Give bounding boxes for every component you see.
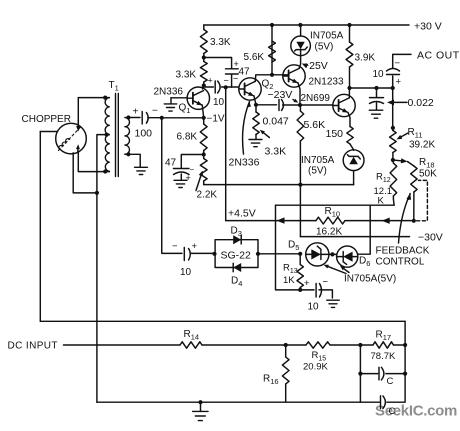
svg-text:−: −	[224, 76, 229, 86]
label +30 V	[414, 21, 442, 33]
wire chopper bottom	[78, 152, 109, 171]
label (5V) mid	[308, 166, 327, 177]
node 5.6Kb bottom	[298, 183, 302, 187]
label -30V	[418, 232, 443, 244]
wire R15	[286, 344, 361, 346]
node R13 bottom	[298, 288, 302, 292]
capacitor 0.022	[370, 98, 384, 110]
label - cap10c	[323, 277, 329, 288]
wire bus to R11	[392, 88, 394, 128]
svg-text:39.2K: 39.2K	[409, 140, 435, 151]
diode D4	[233, 263, 241, 272]
node D5-D6	[330, 252, 334, 256]
svg-text:+: +	[186, 173, 191, 183]
ground C47a	[174, 180, 187, 187]
wire cap100 out	[148, 117, 162, 119]
label 3.3K upper	[210, 37, 231, 48]
resistor R18 50K	[411, 166, 417, 192]
wire chopper left	[40, 131, 57, 133]
label - cap10a	[224, 76, 229, 86]
node SG22 left	[212, 252, 216, 256]
label IN705A top	[310, 31, 344, 42]
wire 2N1233 collector	[299, 56, 300, 69]
svg-text:+4.5V: +4.5V	[228, 208, 256, 220]
transistor 2N1233	[283, 65, 305, 87]
resistor R13 1K	[297, 254, 303, 290]
wire Q2 base net vertical	[225, 87, 227, 220]
wire secondary bottom to ground	[125, 154, 140, 167]
wire Q2 emitter to 0.047	[254, 96, 277, 105]
wire Q1 emitter	[202, 105, 203, 117]
node R11 bottom	[391, 158, 395, 162]
arrow R11 pointer	[397, 133, 409, 140]
wire -30V rail	[300, 236, 409, 238]
label 50K	[419, 169, 437, 180]
label 1K	[283, 275, 295, 286]
svg-text:C: C	[389, 406, 396, 417]
label R16	[263, 374, 279, 387]
label CHOPPER	[22, 114, 71, 125]
label 12.1	[374, 186, 393, 197]
label CONTROL	[376, 257, 425, 268]
svg-text:SeekIC.com: SeekIC.com	[375, 403, 457, 420]
wire -1V node	[162, 117, 204, 119]
resistor 6.8K	[200, 118, 207, 155]
label Q2	[262, 79, 274, 92]
label +4.5V	[228, 208, 256, 220]
transformer T1 primary upper	[105, 98, 109, 135]
svg-text:10: 10	[373, 69, 385, 80]
transistor Q1	[187, 87, 209, 109]
node Q2 emitter	[254, 103, 258, 107]
label 100	[135, 128, 153, 140]
svg-text:CHOPPER: CHOPPER	[22, 114, 71, 125]
svg-text:+: +	[396, 77, 402, 88]
resistor R15 20.9K	[306, 342, 330, 348]
svg-text:−: −	[395, 58, 401, 69]
svg-text:47: 47	[239, 67, 251, 78]
arrow pointer to D5	[324, 265, 347, 274]
node Q1 collector	[202, 83, 206, 87]
wire C2 loop	[360, 374, 405, 403]
arrow 3.3K pointer	[260, 130, 270, 138]
wire chopper coil out	[73, 153, 97, 193]
wire 5.6Ka	[271, 25, 273, 75]
node 0.022 tap	[374, 86, 378, 90]
svg-text:−23V: −23V	[268, 89, 293, 101]
wire 0.022 stem	[376, 88, 378, 97]
svg-text:IN705A: IN705A	[310, 31, 344, 42]
node cap100 to -1V	[160, 116, 164, 120]
label -23V	[268, 89, 293, 101]
svg-text:100: 100	[135, 128, 153, 140]
wire cap100b feed	[162, 118, 182, 254]
transformer T1 secondary	[125, 118, 130, 155]
node R14 R15 junction	[284, 343, 288, 347]
label K	[378, 196, 385, 207]
svg-text:+: +	[192, 241, 198, 252]
wire SG22 to D5	[258, 253, 300, 255]
wire SG22 loop	[215, 240, 258, 268]
node R11 top	[391, 126, 395, 130]
svg-text:2.2K: 2.2K	[197, 190, 218, 201]
resistor 150	[347, 127, 353, 145]
wire chopper left drop	[39, 132, 41, 322]
label 78.7K	[371, 351, 396, 362]
resistor R12 12.1K	[390, 160, 397, 199]
label (5V) top	[315, 42, 334, 53]
node emitter junction	[298, 103, 302, 107]
svg-text:−: −	[190, 165, 195, 174]
svg-text:5.6K: 5.6K	[244, 52, 265, 63]
node 3.9K bottom	[347, 86, 351, 90]
label + cap10c	[304, 278, 310, 289]
svg-text:3.3K: 3.3K	[265, 146, 287, 158]
wire bottom rail	[97, 401, 361, 403]
chopper V1	[56, 123, 87, 154]
label 5.6K second	[304, 119, 326, 131]
svg-text:−30V: −30V	[418, 232, 443, 244]
label - C47b	[233, 74, 238, 84]
label 2N699	[301, 93, 331, 104]
label 3.3K lower	[176, 70, 197, 81]
resistor 3.9K	[346, 25, 353, 88]
svg-text:C: C	[387, 376, 394, 387]
svg-text:16.2K: 16.2K	[316, 227, 342, 238]
wire Q1 collector to Q2 base	[204, 86, 239, 88]
label 16.2K	[316, 227, 342, 238]
resistor 2.2K	[200, 155, 207, 185]
capacitor 100	[142, 112, 148, 125]
wire dashed R18 wiper link	[417, 180, 428, 220]
wire junction cross	[300, 104, 333, 106]
node R18 bottom on feedback line	[412, 219, 416, 223]
ground Q1 base	[164, 98, 177, 111]
label 0.022	[408, 97, 434, 109]
label 3.3K third	[265, 146, 287, 158]
label R14	[184, 329, 200, 342]
label + cap100	[133, 107, 139, 118]
svg-text:+: +	[133, 107, 139, 118]
svg-text:FEEDBACK: FEEDBACK	[376, 246, 430, 257]
wire chopper top	[77, 98, 79, 126]
wire C branch	[360, 345, 405, 374]
svg-text:−: −	[172, 241, 178, 252]
transistor Q2	[239, 78, 261, 100]
arrow feedback into node	[277, 217, 285, 223]
wire T1 center tap drop	[96, 193, 98, 402]
label R15	[312, 350, 327, 363]
diode D3	[233, 235, 241, 244]
svg-text:+30 V: +30 V	[414, 21, 442, 33]
wire Q2 collector	[255, 75, 289, 82]
svg-text:+: +	[208, 76, 213, 86]
label -1V	[207, 114, 225, 125]
svg-text:SG-22: SG-22	[221, 250, 252, 262]
label C1	[387, 376, 394, 387]
svg-text:0.047: 0.047	[263, 116, 289, 128]
label FEEDBACK	[376, 246, 430, 257]
label +25V	[303, 60, 328, 72]
arrow 2N336 to Q2	[243, 102, 251, 155]
arrow pointer to D6	[340, 266, 349, 273]
capacitor 10 (interstage)	[215, 81, 220, 93]
resistor R16	[282, 345, 289, 402]
capacitor C2	[381, 396, 386, 409]
svg-text:(5V): (5V)	[308, 166, 327, 177]
wire 3.3K junction to C47b	[204, 58, 232, 69]
wire R17 leads	[360, 344, 405, 346]
node zener rail tap	[298, 23, 302, 27]
node 3.3K/5.6K rail tap	[270, 23, 274, 27]
resistor 3.3K lower	[200, 58, 207, 86]
capacitor 47 (emitter bypass)	[174, 169, 190, 180]
resistor R17 78.7K	[373, 342, 394, 348]
arrow 0.022 pointer	[387, 100, 407, 106]
node coil to centertap line	[95, 191, 99, 195]
label SG-22	[221, 250, 252, 262]
label 10 acout	[373, 69, 385, 80]
label C2	[389, 406, 396, 417]
arrow feedback direction	[382, 218, 390, 224]
label R17	[376, 330, 392, 343]
wire 2N699 collector	[348, 88, 350, 98]
svg-text:20.9K: 20.9K	[303, 362, 328, 373]
node D5 anode / R13 top	[298, 252, 302, 256]
ground 3.3K third	[249, 135, 262, 147]
transformer T1 primary lower	[105, 135, 109, 172]
svg-text:2N336: 2N336	[229, 157, 260, 169]
node bottom ground	[198, 400, 202, 404]
node T1 secondary top	[126, 115, 130, 119]
wire 2N699 emitter	[348, 113, 350, 127]
wire D5 D6 entry	[329, 253, 337, 255]
resistor R14	[180, 342, 202, 348]
node 6.8K bottom	[202, 152, 206, 156]
capacitor 10 (SG-22)	[184, 248, 214, 261]
node AC cap tap	[391, 86, 395, 90]
label 47 C47b	[239, 67, 251, 78]
zener IN705A mid	[343, 150, 364, 185]
node T1 primary bottom	[103, 169, 107, 173]
node T1 secondary bottom	[126, 152, 130, 156]
label D4	[231, 276, 242, 289]
node R17 left	[358, 343, 362, 347]
label 10 cap10b	[180, 267, 192, 278]
label 20.9K	[303, 362, 328, 373]
label 150	[326, 128, 344, 140]
svg-text:+: +	[304, 278, 310, 289]
ground cap10c	[327, 300, 340, 307]
label + cap10a	[208, 76, 213, 86]
svg-text:47: 47	[165, 158, 177, 169]
node T1 center tap	[105, 133, 109, 137]
label 3.9K	[355, 53, 376, 64]
wire R18 bottom	[413, 192, 415, 221]
label IN705A(5V) lower	[344, 274, 396, 285]
svg-text:−: −	[323, 277, 329, 288]
wire +4.5V feedback line	[226, 220, 414, 222]
label 2N336 second	[229, 157, 260, 169]
ground 0.022	[369, 110, 383, 118]
svg-text:(5V): (5V)	[315, 42, 334, 53]
svg-text:0.022: 0.022	[408, 97, 434, 109]
arrow R18 wiper	[399, 194, 412, 244]
label + C47a	[186, 173, 191, 183]
label 10 cap10c	[308, 302, 320, 313]
svg-text:10: 10	[308, 302, 320, 313]
diode D5 (IN705A)	[306, 243, 329, 266]
node SG22 right	[256, 252, 260, 256]
chopper coil	[59, 127, 82, 151]
wire DC INPUT	[64, 344, 286, 346]
wire left drop to bottom cap	[276, 205, 315, 290]
label - C47a	[190, 165, 195, 174]
label T1	[109, 80, 119, 93]
wire 150 to zener	[350, 144, 354, 150]
transformer T1 core	[116, 94, 119, 177]
wire T1 primary bottom	[108, 170, 110, 172]
node R17 right	[403, 343, 407, 347]
wire left bus bottom	[40, 320, 405, 322]
wire D6 to R12 bus	[358, 205, 371, 254]
node Q2 base net	[224, 85, 228, 89]
svg-text:150: 150	[326, 128, 344, 140]
wire 2N1233 emitter	[298, 83, 300, 105]
svg-text:2N699: 2N699	[301, 93, 331, 104]
svg-text:−1V: −1V	[207, 114, 225, 125]
wire collector bus	[350, 87, 393, 89]
label 5.6K first	[244, 52, 265, 63]
ground bottom rail	[193, 402, 209, 420]
label 39.2K	[409, 140, 435, 151]
svg-text:2N336: 2N336	[154, 87, 184, 98]
label + C47b	[234, 59, 239, 69]
label R12	[376, 172, 391, 185]
resistor 3.3K upper	[200, 25, 207, 58]
capacitor C1	[379, 367, 384, 380]
label 2N336 Q1	[154, 87, 184, 98]
svg-text:3.3K: 3.3K	[210, 37, 231, 48]
wire -30V horizontal bus	[204, 184, 354, 186]
wire to C47a	[181, 155, 203, 169]
label IN705A mid	[301, 155, 335, 166]
svg-text:IN705A: IN705A	[301, 155, 335, 166]
svg-text:AC OUT: AC OUT	[417, 50, 460, 62]
wire T1 center tap	[97, 135, 109, 193]
arrow 2.2K wiper	[196, 171, 203, 191]
svg-text:CONTROL: CONTROL	[376, 257, 425, 268]
svg-text:6.8K: 6.8K	[177, 132, 198, 143]
svg-text:50K: 50K	[419, 169, 437, 180]
arrow -23V pointer	[293, 99, 298, 103]
wire right bus drop	[404, 321, 406, 373]
arrow +25V pointer	[302, 64, 308, 69]
label D3	[231, 226, 242, 239]
wire R18 top bend	[408, 162, 414, 167]
label R10	[325, 206, 341, 219]
arrow chopper bottom contact	[76, 144, 80, 152]
svg-text:3.9K: 3.9K	[355, 53, 376, 64]
arrow R18 feed	[393, 158, 408, 163]
svg-text:5.6K: 5.6K	[304, 119, 326, 131]
label R11	[408, 127, 423, 140]
label - cap10b	[172, 241, 178, 252]
label 0.047	[263, 116, 289, 128]
wire Q1 collector	[203, 86, 204, 90]
node C1 left	[358, 372, 362, 376]
node 3.9K rail tap	[347, 23, 351, 27]
svg-text:−: −	[233, 74, 238, 84]
wire +30V rail	[204, 24, 409, 26]
label watermark SeekIC.com	[375, 403, 457, 420]
label AC OUT	[417, 50, 460, 62]
capacitor 10 (AC OUT)	[387, 69, 400, 75]
wire secondary to cap100	[128, 117, 141, 119]
label - acout	[395, 58, 401, 69]
wire R12 bottom	[392, 199, 395, 205]
svg-text:10: 10	[213, 97, 225, 108]
resistor 3.3K third	[253, 105, 259, 135]
resistor R10 16.2K	[316, 217, 345, 224]
label 2.2K	[197, 190, 218, 201]
resistor 5.6K first	[269, 41, 276, 62]
label - cap100	[152, 106, 158, 117]
transistor 2N699	[333, 94, 355, 116]
label DC INPUT	[8, 341, 58, 352]
svg-text:IN705A(5V): IN705A(5V)	[344, 274, 396, 285]
node between 3.3K resistors	[202, 55, 206, 59]
wire R12 bottom bus	[276, 204, 395, 206]
label D6	[359, 256, 370, 269]
node C1 right	[403, 372, 407, 376]
resistor R11 39.2K	[390, 128, 397, 160]
ground T1 secondary	[135, 167, 148, 174]
label 6.8K	[177, 132, 198, 143]
arrow chopper top contact	[76, 120, 80, 132]
label + cap10b	[192, 241, 198, 252]
svg-text:DC INPUT: DC INPUT	[8, 341, 58, 352]
label 2N1233	[309, 77, 344, 88]
resistor 5.6K second	[297, 105, 304, 185]
label R13	[283, 263, 298, 276]
label 10 cap10a	[213, 97, 225, 108]
capacitor 10 (R13 bypass)	[316, 284, 332, 299]
label D5	[288, 240, 299, 253]
capacitor 47 (Q2 base)	[226, 69, 239, 88]
capacitor 0.047	[279, 100, 300, 111]
wire T1 primary top	[78, 97, 109, 99]
node Q1 emitter	[202, 116, 206, 120]
svg-text:2N1233: 2N1233	[309, 77, 344, 88]
svg-text:78.7K: 78.7K	[371, 351, 396, 362]
zener IN705A top	[291, 25, 311, 56]
node T1 primary top	[103, 96, 107, 100]
wire -30V riser	[299, 185, 301, 237]
label + acout	[396, 77, 402, 88]
label 47 C47a	[165, 158, 177, 169]
diode D6 (IN705A)	[337, 246, 358, 267]
svg-text:10: 10	[180, 267, 192, 278]
svg-text:3.3K: 3.3K	[176, 70, 197, 81]
label Q1	[179, 103, 191, 116]
wire AC OUT	[393, 54, 411, 88]
svg-text:K: K	[378, 196, 385, 207]
node Q2 collector net	[270, 73, 274, 77]
svg-text:1K: 1K	[283, 275, 295, 286]
wire Q1 base	[171, 97, 187, 99]
label R18	[419, 157, 435, 170]
